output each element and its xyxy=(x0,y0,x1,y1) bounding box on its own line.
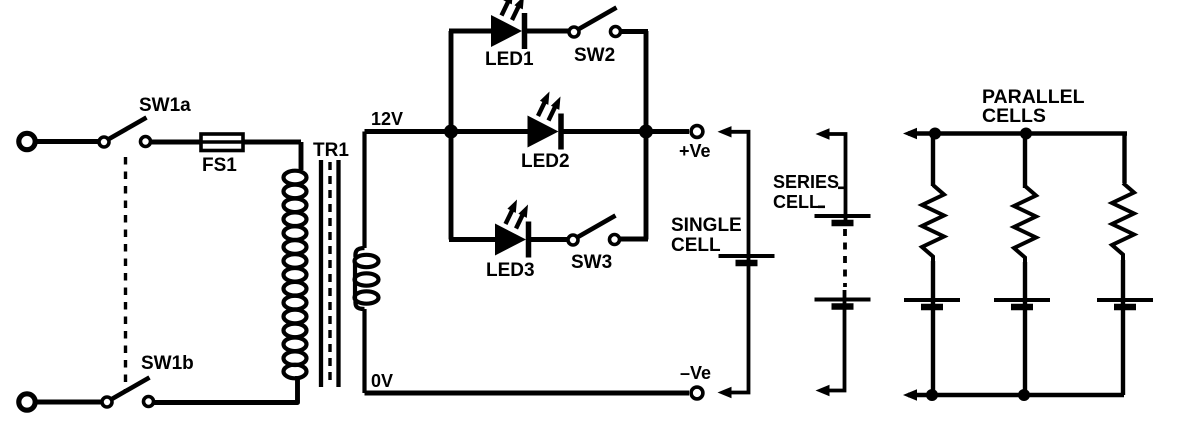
svg-text:12V: 12V xyxy=(371,109,403,129)
svg-text:LED1: LED1 xyxy=(485,49,534,70)
svg-text:SW2: SW2 xyxy=(574,45,615,66)
svg-text:SW1a: SW1a xyxy=(139,95,191,116)
svg-text:+Ve: +Ve xyxy=(679,141,711,161)
svg-text:SW1b: SW1b xyxy=(141,353,194,374)
svg-text:LED2: LED2 xyxy=(521,151,570,172)
svg-text:CELLS: CELLS xyxy=(982,105,1046,127)
svg-text:SERIES: SERIES xyxy=(773,172,839,192)
svg-text:–Ve: –Ve xyxy=(680,363,711,383)
svg-text:0V: 0V xyxy=(371,371,393,391)
svg-text:FS1: FS1 xyxy=(202,155,237,176)
svg-text:SINGLE: SINGLE xyxy=(671,215,742,236)
svg-text:CELL: CELL xyxy=(671,235,721,256)
svg-text:CELL: CELL xyxy=(773,192,820,212)
svg-text:LED3: LED3 xyxy=(486,260,535,281)
svg-text:SW3: SW3 xyxy=(571,252,612,273)
svg-text:TR1: TR1 xyxy=(313,140,349,161)
